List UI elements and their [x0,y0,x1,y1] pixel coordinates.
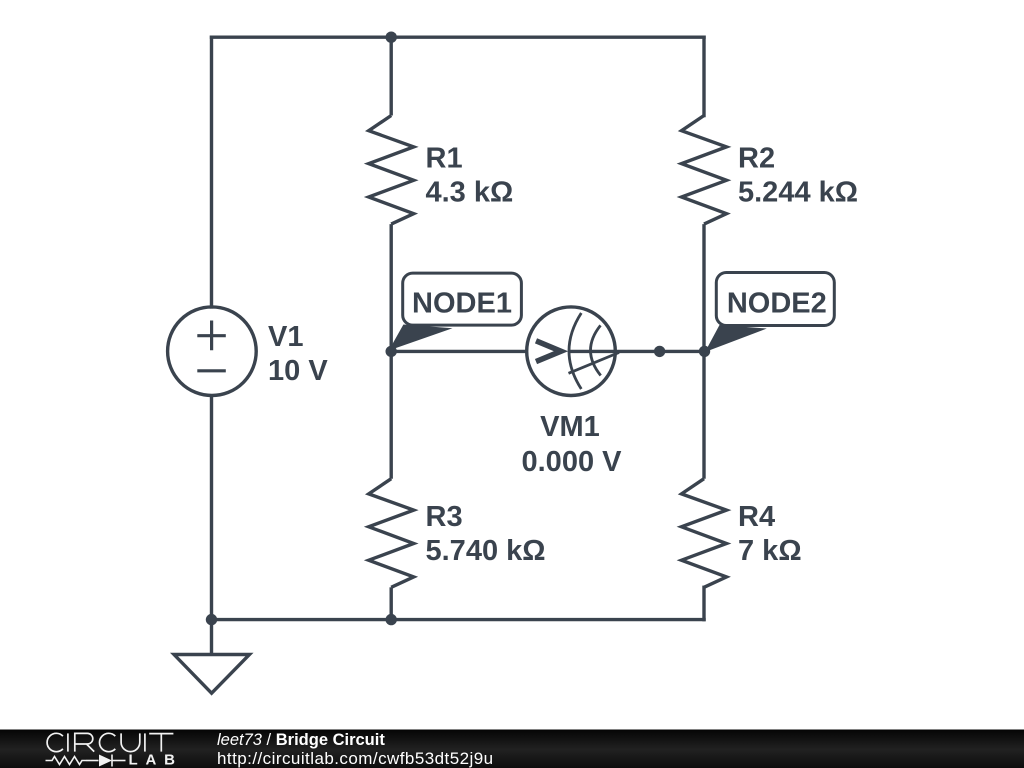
svg-text:VM1: VM1 [540,411,600,443]
svg-text:0.000 V: 0.000 V [522,446,623,478]
CircuitLab logo resistor-diode glyph [46,755,126,767]
svg-text:NODE1: NODE1 [412,288,512,320]
svg-text:10 V: 10 V [268,355,328,387]
junction dot voltmeter right terminal [654,346,665,357]
svg-text:5.740 kΩ: 5.740 kΩ [426,535,546,567]
wire left vertical (top wire to V1 plus terminal) [210,37,213,307]
junction dot R3 bottom [386,614,397,625]
wire R3 bottom lead [390,587,393,619]
wire R1 top lead [390,37,393,115]
wire top horizontal [212,36,705,39]
ground symbol [174,655,250,694]
voltage source V1 [168,307,257,396]
svg-text:LAB: LAB [129,751,183,768]
svg-text:R4: R4 [738,501,775,533]
svg-text:http://circuitlab.com/cwfb53dt: http://circuitlab.com/cwfb53dt52j9u [217,749,494,768]
junction dot V1 bottom / ground [206,614,217,625]
svg-text:R1: R1 [426,143,463,175]
svg-text:7 kΩ: 7 kΩ [738,535,802,567]
wire V1 minus terminal down to bottom wire [210,396,213,620]
voltmeter VM1 [527,307,619,396]
wire bottom horizontal [212,618,705,621]
wire R2 top lead [702,37,705,115]
wire NODE2 down to R4 [702,351,705,478]
wire NODE1 to voltmeter [391,350,527,353]
svg-text:V1: V1 [268,321,303,353]
wire R2 bottom to NODE2 [702,224,705,351]
resistor R4 [682,479,727,588]
node NODE1 callout tail [389,325,453,351]
wire NODE1 down to R3 [390,351,393,478]
footer black bar [0,730,1024,768]
svg-text:R3: R3 [426,501,463,533]
resistor R2 [682,116,727,225]
resistor R1 [369,116,414,225]
wire R4 bottom lead [702,587,705,619]
node NODE1 callout box [403,273,522,325]
svg-text:leet73 / Bridge Circuit: leet73 / Bridge Circuit [217,731,385,749]
svg-text:5.244 kΩ: 5.244 kΩ [738,177,858,209]
svg-text:NODE2: NODE2 [727,288,827,320]
wire R1 bottom to NODE1 [390,224,393,351]
junction dot NODE2 [699,346,710,357]
wire voltmeter to NODE2 [615,350,704,353]
node NODE2 callout box [716,273,834,326]
junction dot top (R1 branch) [386,32,397,43]
node NODE2 callout tail [705,325,767,352]
CircuitLab logo wordmark CIRCUIT [47,733,173,751]
svg-text:4.3 kΩ: 4.3 kΩ [426,177,514,209]
svg-text:R2: R2 [738,143,775,175]
junction dot NODE1 [386,346,397,357]
resistor R3 [369,479,414,588]
wire ground stem [210,620,213,655]
